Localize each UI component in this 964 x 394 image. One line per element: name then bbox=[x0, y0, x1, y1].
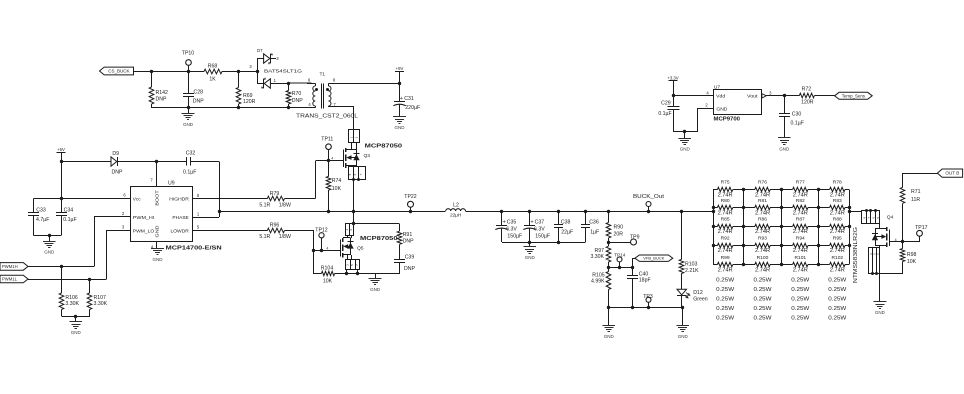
wire bank to Q4 bbox=[849, 211, 862, 213]
capacitor C28 bbox=[187, 70, 190, 73]
resistor R87 bbox=[781, 226, 793, 228]
wire C29/GND pin bbox=[673, 131, 698, 133]
op-amp U9 MCP14700 box bbox=[131, 187, 193, 242]
svg-text:C35: C35 bbox=[507, 219, 517, 225]
bank junctions bbox=[712, 206, 715, 209]
ground bbox=[608, 308, 610, 326]
svg-text:Vcc: Vcc bbox=[133, 197, 141, 203]
svg-text:0.25W: 0.25W bbox=[828, 277, 846, 283]
resistor R142 bbox=[151, 71, 153, 87]
wire cap bank bottom bbox=[502, 242, 586, 244]
svg-text:PWM_HI: PWM_HI bbox=[133, 215, 155, 221]
svg-text:0.25W: 0.25W bbox=[716, 287, 734, 293]
svg-text:DNP: DNP bbox=[403, 239, 414, 245]
resistor R82 bbox=[781, 207, 793, 209]
wire caps to ground bbox=[34, 235, 61, 237]
wire bank inner bus 2 bbox=[743, 190, 745, 265]
Q5 mosfet symbol bbox=[340, 240, 342, 257]
svg-text:GND: GND bbox=[604, 334, 615, 339]
svg-text:+9V: +9V bbox=[396, 66, 404, 71]
wire HIGHDR to R79 bbox=[192, 198, 267, 200]
ground bbox=[49, 236, 51, 242]
Q5 drain stub bbox=[347, 235, 349, 238]
resistor R94 bbox=[781, 245, 793, 247]
svg-text:R107: R107 bbox=[94, 295, 107, 301]
svg-text:TP17: TP17 bbox=[915, 225, 928, 231]
svg-text:C37: C37 bbox=[535, 219, 545, 225]
svg-text:4.99K: 4.99K bbox=[591, 279, 605, 285]
wire +5V to D9/C32 bbox=[60, 160, 63, 163]
svg-text:BUCK_Out: BUCK_Out bbox=[633, 194, 665, 200]
svg-text:10K: 10K bbox=[907, 259, 917, 265]
ground bbox=[151, 248, 164, 250]
test point TP9 bbox=[608, 238, 610, 246]
wire PWM1H bbox=[28, 266, 94, 268]
svg-text:R90: R90 bbox=[614, 225, 624, 231]
svg-text:2.74R: 2.74R bbox=[755, 229, 770, 235]
svg-text:R85: R85 bbox=[721, 217, 730, 223]
capacitor C32 bbox=[186, 157, 188, 166]
svg-text:Vout: Vout bbox=[747, 94, 758, 100]
resistor R69 bbox=[237, 70, 240, 73]
T1 right winding bbox=[329, 83, 331, 85]
Q5 drain pin box bbox=[346, 224, 354, 236]
test point TP14 bbox=[617, 257, 622, 262]
resistor R85 bbox=[713, 226, 717, 228]
capacitor C36 bbox=[584, 210, 587, 213]
svg-text:R75: R75 bbox=[721, 180, 730, 186]
wire feedback node bbox=[609, 267, 633, 269]
resistor R91 bbox=[399, 224, 401, 231]
Q4 source pin box bbox=[879, 246, 881, 248]
svg-text:+3.3V: +3.3V bbox=[667, 75, 678, 80]
svg-text:150µF: 150µF bbox=[507, 233, 522, 239]
svg-text:D7: D7 bbox=[257, 48, 263, 53]
svg-text:0.25W: 0.25W bbox=[828, 315, 846, 321]
svg-text:2.74R: 2.74R bbox=[793, 229, 808, 235]
wire Q5 source rail bbox=[347, 273, 400, 275]
wire R72 to flag bbox=[814, 95, 834, 97]
svg-text:0.25W: 0.25W bbox=[716, 296, 734, 302]
svg-text:0.25W: 0.25W bbox=[716, 277, 734, 283]
svg-text:3.30K: 3.30K bbox=[94, 301, 108, 307]
svg-text:R96: R96 bbox=[270, 223, 280, 229]
svg-text:MCP9700: MCP9700 bbox=[714, 117, 741, 123]
svg-text:0.1µF: 0.1µF bbox=[183, 169, 196, 175]
resistor R103 bbox=[680, 210, 683, 213]
wire Q3 source to phase bbox=[353, 180, 355, 211]
resistor R77 bbox=[781, 189, 793, 191]
svg-text:R103: R103 bbox=[685, 262, 698, 268]
capacitor C33 bbox=[33, 199, 35, 213]
svg-text:4: 4 bbox=[895, 238, 897, 242]
svg-text:GND: GND bbox=[153, 257, 164, 262]
T1 phase dot left bbox=[315, 88, 318, 91]
svg-text:2.74R: 2.74R bbox=[830, 229, 845, 235]
resistor R92 bbox=[713, 245, 717, 247]
svg-text:GND: GND bbox=[71, 330, 82, 335]
wire R68 to D7 node bbox=[222, 71, 257, 73]
svg-text:D12: D12 bbox=[693, 290, 703, 296]
svg-text:2.74R: 2.74R bbox=[793, 267, 808, 273]
svg-text:T1: T1 bbox=[319, 71, 325, 77]
capacitor C38 bbox=[557, 210, 560, 213]
wire R106 R107 to ground bbox=[62, 316, 90, 318]
svg-text:2.74R: 2.74R bbox=[793, 248, 808, 254]
svg-text:2.74R: 2.74R bbox=[755, 267, 770, 273]
test point TP17 bbox=[919, 236, 921, 242]
wire D7 common bbox=[257, 58, 259, 83]
svg-text:0.25W: 0.25W bbox=[828, 296, 846, 302]
svg-text:R78: R78 bbox=[833, 180, 842, 186]
capacitor C35 bbox=[500, 210, 503, 213]
svg-text:0.25W: 0.25W bbox=[791, 315, 809, 321]
resistor R83 bbox=[818, 207, 829, 209]
svg-text:GND: GND bbox=[678, 334, 689, 339]
resistor R100 bbox=[744, 264, 755, 266]
svg-text:DNP: DNP bbox=[112, 170, 123, 176]
resistor R96 bbox=[267, 228, 284, 233]
svg-text:D9: D9 bbox=[112, 151, 119, 157]
svg-text:Q3: Q3 bbox=[364, 153, 371, 159]
svg-text:R91: R91 bbox=[403, 232, 413, 238]
wire R96 node down to R104 bbox=[313, 251, 315, 274]
svg-text:0.1µF: 0.1µF bbox=[791, 121, 804, 127]
svg-text:C28: C28 bbox=[194, 90, 204, 96]
Q4 body diode bbox=[875, 229, 877, 246]
resistor R101 bbox=[781, 264, 793, 266]
svg-text:GND: GND bbox=[155, 225, 161, 238]
resistor R68 bbox=[204, 69, 222, 74]
ground bbox=[778, 137, 791, 139]
svg-text:DNP: DNP bbox=[156, 96, 167, 102]
resistor R86 bbox=[744, 226, 755, 228]
svg-text:2.74R: 2.74R bbox=[830, 248, 845, 254]
svg-text:0.25W: 0.25W bbox=[754, 277, 772, 283]
svg-text:R99: R99 bbox=[721, 255, 730, 261]
svg-text:MCP87050: MCP87050 bbox=[365, 144, 403, 150]
svg-text:1K: 1K bbox=[209, 76, 216, 82]
svg-text:R81: R81 bbox=[758, 198, 767, 204]
svg-text:R80: R80 bbox=[721, 198, 730, 204]
wire U9 PHASE pin bbox=[192, 217, 219, 219]
svg-text:TP3: TP3 bbox=[643, 294, 653, 300]
svg-text:DNP: DNP bbox=[193, 99, 204, 105]
svg-text:+: + bbox=[503, 220, 506, 226]
net flag VFB_BUCK bbox=[632, 258, 634, 267]
resistor R97 bbox=[606, 246, 611, 262]
svg-text:20R: 20R bbox=[614, 231, 624, 237]
svg-text:0.25W: 0.25W bbox=[828, 287, 846, 293]
resistor R79 bbox=[267, 196, 284, 201]
capacitor C39 bbox=[399, 244, 401, 259]
ground bbox=[682, 308, 684, 326]
svg-text:C31: C31 bbox=[404, 96, 414, 102]
svg-text:2.74R: 2.74R bbox=[755, 211, 770, 217]
svg-text:TP11: TP11 bbox=[321, 137, 333, 143]
svg-text:10K: 10K bbox=[323, 279, 333, 285]
svg-text:5.1R: 5.1R bbox=[259, 202, 270, 208]
svg-text:R100: R100 bbox=[757, 255, 769, 261]
svg-text:+: + bbox=[400, 96, 403, 102]
svg-text:6.3V: 6.3V bbox=[534, 226, 545, 232]
svg-text:2.74R: 2.74R bbox=[718, 229, 733, 235]
svg-text:2.74R: 2.74R bbox=[755, 248, 770, 254]
svg-text:TP22: TP22 bbox=[404, 194, 417, 200]
svg-text:+: + bbox=[530, 220, 533, 226]
svg-text:2.74R: 2.74R bbox=[718, 192, 733, 198]
svg-text:GND: GND bbox=[779, 146, 790, 151]
Q3 mosfet symbol bbox=[343, 150, 345, 168]
svg-text:C39: C39 bbox=[405, 254, 415, 260]
svg-text:Q4: Q4 bbox=[887, 215, 894, 221]
svg-text:R102: R102 bbox=[831, 255, 843, 261]
wire bank inner bus 3 bbox=[781, 190, 783, 265]
svg-text:GND: GND bbox=[716, 106, 728, 112]
resistor R78 bbox=[818, 189, 829, 191]
resistor R98 bbox=[900, 249, 905, 262]
svg-text:0.25W: 0.25W bbox=[754, 287, 772, 293]
capacitor C31 bbox=[399, 83, 401, 101]
resistor R107 bbox=[88, 278, 91, 281]
svg-text:0.1µF: 0.1µF bbox=[63, 217, 76, 223]
svg-text:MCP87050: MCP87050 bbox=[360, 236, 398, 242]
svg-text:2.21K: 2.21K bbox=[685, 268, 699, 274]
svg-text:150µF: 150µF bbox=[535, 233, 550, 239]
Q3 source pin box bbox=[349, 167, 366, 180]
resistor R80 bbox=[713, 207, 717, 209]
svg-text:GND: GND bbox=[183, 122, 194, 127]
test point TP3 bbox=[646, 297, 651, 302]
svg-text:11R: 11R bbox=[911, 197, 920, 203]
svg-text:Temp_Sens: Temp_Sens bbox=[842, 93, 866, 98]
resistor R88 bbox=[818, 226, 829, 228]
svg-text:0.25W: 0.25W bbox=[754, 315, 772, 321]
svg-text:0.25W: 0.25W bbox=[828, 306, 846, 312]
svg-text:10K: 10K bbox=[332, 186, 342, 192]
capacitor C34 bbox=[61, 199, 63, 213]
svg-text:R70: R70 bbox=[292, 91, 302, 97]
diode D7 lower (BAT54S) bbox=[257, 83, 264, 85]
wire main phase line bbox=[219, 211, 446, 213]
wire R96 to Q5 gate bbox=[285, 230, 314, 232]
ground bbox=[375, 274, 377, 279]
D12 LED arrows bbox=[686, 293, 690, 296]
svg-text:C38: C38 bbox=[561, 219, 571, 225]
svg-text:R76: R76 bbox=[758, 180, 767, 186]
wire LOWDR to R96 bbox=[192, 230, 267, 232]
Q3 body diode bbox=[356, 150, 358, 166]
ground bbox=[188, 107, 190, 113]
net flag CS_BUCK bbox=[100, 67, 134, 75]
svg-text:PWM1L: PWM1L bbox=[2, 277, 18, 282]
wire +5V down to Vcc bbox=[61, 161, 63, 198]
wire U7 VOUT bbox=[762, 94, 766, 98]
svg-text:R88: R88 bbox=[833, 217, 842, 223]
svg-text:2.74R: 2.74R bbox=[830, 267, 845, 273]
resistor R76 bbox=[744, 189, 755, 191]
svg-text:L2: L2 bbox=[453, 202, 459, 208]
wire Q5 drain to R91 bbox=[353, 211, 355, 224]
wire D7 to T1 pin 6 bbox=[288, 82, 313, 84]
svg-text:R92: R92 bbox=[721, 236, 730, 242]
resistor R104 bbox=[313, 273, 321, 275]
wire bottom feedback rail bbox=[609, 307, 683, 309]
wire Q4 source rail bbox=[869, 273, 903, 275]
capacitor C40 bbox=[632, 267, 634, 275]
resistor R72 bbox=[799, 93, 814, 98]
svg-text:4: 4 bbox=[331, 156, 333, 160]
svg-text:C36: C36 bbox=[589, 219, 599, 225]
LED D12 bbox=[681, 274, 683, 290]
svg-text:C32: C32 bbox=[186, 151, 196, 157]
svg-text:0.1µF: 0.1µF bbox=[658, 111, 671, 117]
svg-text:Vdd: Vdd bbox=[716, 94, 725, 100]
svg-text:R95: R95 bbox=[833, 236, 842, 242]
svg-text:U9: U9 bbox=[168, 181, 175, 187]
svg-text:R69: R69 bbox=[243, 93, 253, 99]
svg-text:3.30K: 3.30K bbox=[590, 254, 604, 260]
svg-text:1/8W: 1/8W bbox=[279, 202, 291, 208]
svg-text:220µF: 220µF bbox=[405, 105, 420, 111]
svg-text:GND: GND bbox=[44, 250, 55, 255]
svg-text:R72: R72 bbox=[802, 87, 812, 93]
svg-text:2.74R: 2.74R bbox=[830, 192, 845, 198]
Q5 source pin box bbox=[346, 260, 360, 270]
svg-text:2.74R: 2.74R bbox=[830, 211, 845, 217]
svg-text:6.3V: 6.3V bbox=[506, 226, 517, 232]
wire bank right bus bbox=[849, 190, 851, 265]
svg-text:R77: R77 bbox=[796, 180, 805, 186]
svg-text:0.25W: 0.25W bbox=[716, 306, 734, 312]
svg-text:0.25W: 0.25W bbox=[791, 287, 809, 293]
wire L2 to bank bbox=[466, 211, 714, 213]
resistor R93 bbox=[744, 245, 755, 247]
svg-text:GND: GND bbox=[875, 310, 886, 315]
capacitor C29 bbox=[673, 96, 675, 107]
svg-text:3.30K: 3.30K bbox=[65, 301, 79, 307]
wire bank inner bus 4 bbox=[818, 190, 820, 265]
transistor Q4 drain pin box bbox=[862, 211, 880, 224]
svg-text:Green: Green bbox=[693, 297, 708, 303]
resistor R71 bbox=[902, 173, 904, 187]
capacitor C30 bbox=[783, 94, 786, 97]
svg-text:5.1R: 5.1R bbox=[259, 234, 270, 240]
svg-text:18pF: 18pF bbox=[639, 278, 651, 284]
svg-text:TP9: TP9 bbox=[630, 234, 640, 240]
net stub BUCK_Out bbox=[647, 210, 650, 213]
svg-text:0.25W: 0.25W bbox=[791, 306, 809, 312]
svg-text:120R: 120R bbox=[801, 100, 814, 106]
Q4 gate wire bbox=[889, 241, 919, 243]
svg-text:R104: R104 bbox=[321, 265, 334, 271]
svg-text:2.74R: 2.74R bbox=[793, 211, 808, 217]
svg-text:R101: R101 bbox=[794, 255, 806, 261]
wire BOOT pin 7 bbox=[156, 161, 158, 186]
ground bbox=[879, 274, 881, 302]
svg-text:R87: R87 bbox=[796, 217, 805, 223]
resistor R99 bbox=[713, 264, 717, 266]
wire +3.3V to U7 VDD bbox=[673, 95, 714, 97]
svg-text:R94: R94 bbox=[796, 236, 805, 242]
node BOOT bbox=[155, 160, 158, 163]
svg-text:1µF: 1µF bbox=[590, 229, 599, 235]
svg-text:GND: GND bbox=[370, 287, 381, 292]
ground bbox=[529, 242, 531, 247]
svg-text:R86: R86 bbox=[758, 217, 767, 223]
svg-text:0.25W: 0.25W bbox=[791, 296, 809, 302]
svg-text:22µH: 22µH bbox=[450, 212, 461, 217]
Q5 source stubs to gnd rail bbox=[347, 255, 349, 260]
T1 phase dot right bbox=[326, 88, 329, 91]
svg-text:R83: R83 bbox=[833, 198, 842, 204]
svg-text:BOOT: BOOT bbox=[155, 190, 161, 206]
T1 core bbox=[321, 84, 323, 109]
svg-text:R142: R142 bbox=[156, 90, 169, 96]
wire OUT B to R71 bbox=[903, 173, 938, 175]
U9 GND pin 4 bbox=[156, 241, 158, 248]
svg-text:0.25W: 0.25W bbox=[754, 306, 772, 312]
op-amp U7 MCP9700 box bbox=[714, 90, 762, 115]
svg-text:R82: R82 bbox=[796, 198, 805, 204]
resistor R75 bbox=[713, 189, 717, 191]
net flag OUT B bbox=[937, 169, 962, 177]
svg-text:R106: R106 bbox=[65, 295, 78, 301]
wire bottom rail to T1 pin 4 bbox=[151, 107, 315, 109]
svg-text:C34: C34 bbox=[64, 207, 74, 213]
wire R79 to Q3 gate bbox=[285, 198, 316, 200]
svg-text:4: 4 bbox=[326, 246, 328, 250]
svg-text:PWM_LO: PWM_LO bbox=[133, 228, 155, 234]
svg-text:C33: C33 bbox=[36, 207, 46, 213]
resistor R105 bbox=[606, 272, 611, 290]
resistor R106 bbox=[60, 265, 63, 268]
svg-text:0.25W: 0.25W bbox=[716, 315, 734, 321]
Q3 drain stubs bbox=[351, 143, 353, 150]
svg-text:R93: R93 bbox=[758, 236, 767, 242]
svg-text:R97: R97 bbox=[594, 248, 604, 254]
svg-text:TRANS_CST2_060L: TRANS_CST2_060L bbox=[296, 114, 358, 120]
svg-text:2.74R: 2.74R bbox=[755, 192, 770, 198]
net flag PWM1H bbox=[0, 263, 28, 271]
wire T1 pin 8 to +9V node bbox=[331, 83, 400, 85]
svg-text:4.7µF: 4.7µF bbox=[36, 217, 49, 223]
svg-text:R98: R98 bbox=[907, 252, 917, 258]
wire C32 to PHASE bbox=[191, 161, 220, 163]
svg-text:PHASE: PHASE bbox=[172, 215, 189, 221]
svg-text:2.74R: 2.74R bbox=[718, 248, 733, 254]
capacitor C37 bbox=[528, 210, 531, 213]
svg-text:1/8W: 1/8W bbox=[279, 234, 291, 240]
resistor R102 bbox=[818, 264, 829, 266]
svg-text:R68: R68 bbox=[208, 64, 218, 70]
resistor R95 bbox=[818, 245, 829, 247]
svg-text:MCP14700-E/SN: MCP14700-E/SN bbox=[166, 245, 222, 251]
svg-text:BAT54SLT1G: BAT54SLT1G bbox=[264, 69, 302, 75]
svg-text:0.25W: 0.25W bbox=[754, 296, 772, 302]
resistor R70 bbox=[287, 82, 290, 85]
svg-text:0.25W: 0.25W bbox=[791, 277, 809, 283]
wire T1 pin 7 down to Q3 drain bbox=[329, 106, 354, 108]
svg-text:2.74R: 2.74R bbox=[718, 267, 733, 273]
svg-text:2.74R: 2.74R bbox=[718, 211, 733, 217]
svg-text:PWM1H: PWM1H bbox=[2, 264, 18, 269]
wire PWM1L bbox=[28, 279, 107, 281]
svg-text:NTMS5838NLR2G: NTMS5838NLR2G bbox=[853, 227, 859, 283]
svg-text:DNP: DNP bbox=[292, 98, 303, 104]
net flag Temp_Sens bbox=[835, 92, 873, 99]
svg-text:C30: C30 bbox=[792, 111, 802, 117]
